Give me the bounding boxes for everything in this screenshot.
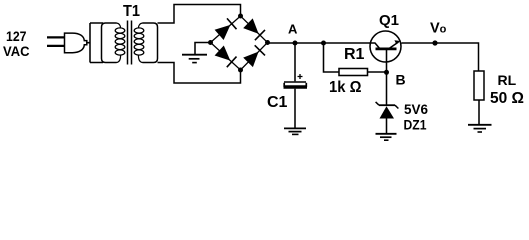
zener diode DZ1 bbox=[376, 102, 399, 119]
svg-text:DZ1: DZ1 bbox=[404, 118, 427, 133]
label 127 VAC source bbox=[3, 28, 30, 59]
svg-text:50 Ω: 50 Ω bbox=[490, 90, 524, 107]
wire secondary top to bridge top bbox=[158, 5, 241, 24]
wire C1 to ground bbox=[294, 89, 296, 128]
transformer T1 primary winding bbox=[102, 23, 125, 63]
node A bbox=[293, 41, 298, 46]
wire node A to C1 bbox=[294, 43, 296, 81]
resistor RL bbox=[474, 71, 484, 100]
wire secondary bottom to bridge bottom bbox=[158, 63, 241, 84]
svg-text:VAC: VAC bbox=[3, 43, 30, 59]
wire node B to zener bbox=[386, 72, 388, 105]
ground (C1) bbox=[284, 128, 306, 134]
node Vo bbox=[432, 40, 437, 45]
svg-text:B: B bbox=[396, 72, 406, 88]
svg-text:5V6: 5V6 bbox=[404, 101, 428, 117]
junction bridge left bbox=[208, 40, 213, 45]
diode D2 (top-right) bbox=[243, 18, 265, 40]
svg-text:Vo: Vo bbox=[430, 21, 447, 37]
junction bridge bottom bbox=[238, 68, 243, 73]
resistor R1 bbox=[339, 69, 368, 76]
svg-text:RL: RL bbox=[498, 72, 517, 88]
wire rail tap down to R1 bbox=[324, 43, 340, 72]
transformer T1 core bbox=[128, 21, 132, 65]
wire R1 to node B bbox=[368, 71, 387, 73]
wire zener to ground bbox=[386, 119, 388, 134]
ground (RL) bbox=[468, 125, 492, 132]
diode D4 (bottom-right) bbox=[243, 45, 265, 67]
wire Q1 emitter to RL (Vo rail) bbox=[402, 43, 479, 71]
svg-text:1k Ω: 1k Ω bbox=[329, 79, 362, 96]
capacitor C1 plus sign bbox=[298, 74, 303, 79]
svg-text:Q1: Q1 bbox=[379, 12, 399, 29]
svg-text:T1: T1 bbox=[123, 3, 140, 20]
junction bridge top bbox=[238, 14, 243, 19]
wire bridge to Q1 collector (node A rail) bbox=[268, 42, 372, 44]
capacitor C1 bbox=[284, 82, 308, 87]
diode D1 (left-top) bbox=[215, 18, 237, 40]
AC plug bbox=[47, 33, 87, 53]
wire RL to ground bbox=[478, 100, 480, 125]
node B bbox=[384, 70, 389, 75]
junction bridge right bbox=[265, 40, 270, 45]
bridge rectifier frame bbox=[211, 16, 268, 70]
svg-text:C1: C1 bbox=[267, 94, 288, 111]
svg-text:R1: R1 bbox=[344, 46, 365, 63]
svg-text:A: A bbox=[288, 22, 298, 37]
transformer T1 secondary winding bbox=[134, 23, 157, 63]
diode D3 (left-bottom) bbox=[215, 46, 237, 68]
wire bridge left to ground bbox=[195, 43, 211, 55]
transistor Q1 bbox=[370, 31, 401, 73]
junction R1 tap bbox=[321, 41, 326, 46]
ground (zener) bbox=[376, 134, 397, 140]
svg-text:127: 127 bbox=[6, 28, 27, 44]
wire plug cord to primary bbox=[87, 23, 103, 63]
ground (bridge) bbox=[182, 55, 207, 63]
